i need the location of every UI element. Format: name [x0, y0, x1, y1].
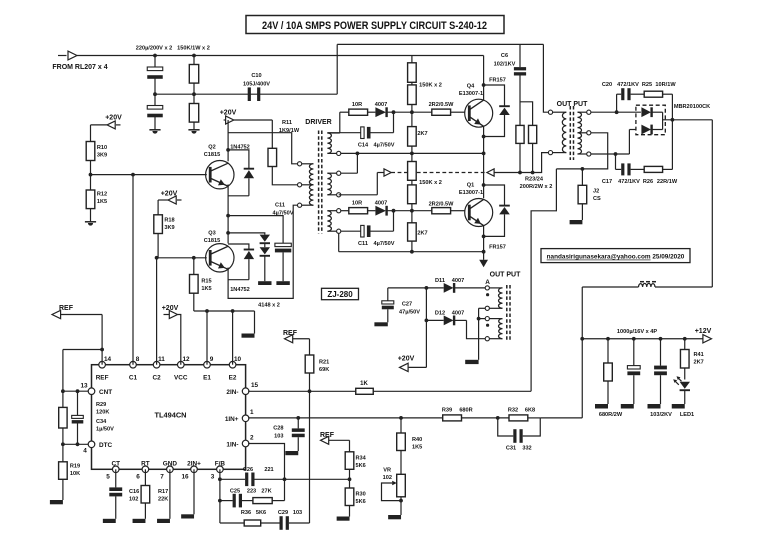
wire +12V rail	[582, 338, 703, 340]
IC pin 16 2IN+	[191, 466, 198, 473]
svg-text:R21: R21	[319, 360, 329, 366]
svg-text:150K/1W x 2: 150K/1W x 2	[177, 46, 210, 52]
svg-text:Q1: Q1	[467, 183, 474, 189]
ground	[595, 404, 608, 409]
svg-text:FR157: FR157	[489, 245, 506, 251]
resistor 150K/1W No.1	[193, 56, 195, 65]
svg-text:4007: 4007	[452, 278, 464, 284]
wire C1 riser	[132, 175, 134, 365]
resistor 680R/2W	[607, 339, 609, 363]
capacitor 103/2KV	[660, 339, 662, 366]
svg-text:4007: 4007	[375, 102, 387, 108]
wire feedback to R32	[581, 339, 583, 418]
resistor R10 3K9	[90, 125, 92, 142]
svg-text:2K7: 2K7	[417, 231, 427, 237]
IC pin 3 F/B	[217, 466, 224, 473]
capacitor 1000u/16V	[633, 339, 635, 366]
wire snubber right riser	[671, 94, 673, 169]
svg-text:3K9: 3K9	[164, 225, 174, 231]
IC pin 11 C2	[153, 361, 160, 368]
wire winding row to bridge node	[341, 152, 484, 154]
svg-text:47µ/50V: 47µ/50V	[399, 310, 420, 316]
wire Q3 emitter return loop	[228, 205, 297, 298]
svg-text:R15: R15	[201, 279, 211, 285]
svg-text:C14: C14	[358, 143, 369, 149]
svg-text:+20V: +20V	[220, 110, 237, 117]
wire R21 down	[309, 373, 311, 523]
wire +12V riser	[581, 287, 583, 339]
capacitor C34 1u/50V	[77, 391, 79, 415]
svg-text:C1: C1	[129, 375, 138, 382]
svg-text:10: 10	[234, 356, 242, 363]
ground	[157, 519, 170, 523]
svg-text:1K: 1K	[360, 381, 368, 387]
IC pin 9 E1	[204, 361, 211, 368]
svg-text:R12: R12	[97, 192, 107, 198]
svg-text:11: 11	[158, 356, 165, 363]
ground	[242, 334, 255, 338]
ground	[621, 404, 634, 409]
svg-text:R10: R10	[97, 145, 107, 151]
resistor 150K/1W No.2	[193, 94, 195, 103]
wire REF branch	[63, 349, 102, 351]
svg-text:27K: 27K	[261, 489, 271, 495]
IC pin 14 REF	[99, 361, 106, 368]
svg-text:472/1KV: 472/1KV	[617, 82, 639, 88]
wire C14 risers	[393, 112, 395, 133]
wire top link	[336, 44, 338, 94]
svg-text:R30: R30	[356, 492, 366, 498]
svg-text:C27: C27	[402, 302, 412, 308]
svg-text:R34: R34	[356, 456, 367, 462]
wire R23/R24 bottoms to drive bus	[519, 143, 521, 172]
wire feedback return loop	[531, 169, 556, 391]
wire link windings	[356, 153, 358, 173]
svg-text:1K5: 1K5	[412, 445, 422, 451]
IC pin 6 RT	[142, 466, 149, 473]
svg-text:6: 6	[136, 474, 140, 481]
main transformer secondary	[578, 112, 582, 133]
wire emitter return rail	[338, 233, 340, 251]
transistor Q2 C1815	[206, 161, 234, 189]
svg-text:OUT PUT: OUT PUT	[557, 101, 588, 108]
ground arrow	[483, 252, 485, 260]
svg-text:VR: VR	[383, 468, 391, 474]
svg-text:5: 5	[106, 474, 110, 481]
IC pin 15 2IN-	[242, 388, 249, 395]
svg-text:J2: J2	[593, 189, 599, 195]
wire 2IN- feedback row	[248, 390, 531, 392]
svg-text:4: 4	[83, 448, 87, 455]
svg-text:F/B: F/B	[215, 461, 226, 468]
svg-text:CS: CS	[593, 196, 601, 202]
svg-text:R25: R25	[642, 82, 652, 88]
svg-text:2K7: 2K7	[417, 131, 427, 137]
diodes 4148 x 2 column	[228, 233, 265, 235]
svg-text:5K6: 5K6	[356, 499, 366, 505]
IC pin 2 1IN-	[242, 440, 249, 447]
IC pin 13 CNT	[88, 388, 95, 395]
svg-text:+20V: +20V	[398, 356, 415, 363]
svg-text:C17: C17	[602, 179, 612, 185]
ground	[570, 220, 583, 224]
wire Q4 collector riser	[483, 56, 485, 101]
wire R24 top link	[520, 102, 533, 126]
svg-text:E13007-1: E13007-1	[459, 190, 483, 196]
resistor 27K	[253, 498, 272, 504]
svg-text:CT: CT	[111, 461, 120, 468]
svg-text:C11: C11	[275, 203, 285, 209]
svg-text:2IN+: 2IN+	[187, 461, 201, 468]
capacitor 220u No.2	[154, 94, 156, 106]
IC pin 1 1IN+	[242, 415, 249, 422]
capacitor 220u No.1	[154, 56, 156, 68]
svg-text:120K: 120K	[96, 410, 109, 416]
svg-text:C1815: C1815	[204, 238, 220, 244]
svg-text:R40: R40	[412, 437, 422, 443]
svg-text:105J/400V: 105J/400V	[243, 82, 270, 88]
svg-text:C25: C25	[230, 489, 240, 495]
resistor R29 120K	[59, 407, 67, 428]
svg-text:C2: C2	[153, 375, 162, 382]
capacitor C29 103	[280, 516, 283, 530]
svg-text:103: 103	[293, 510, 302, 516]
svg-text:+20V: +20V	[105, 115, 122, 122]
svg-text:R29: R29	[96, 402, 106, 408]
svg-text:223: 223	[247, 489, 256, 495]
wire rail ground stub	[254, 311, 256, 334]
driver transformer secondary windings	[327, 133, 331, 153]
wire VR wiper loop	[382, 483, 402, 501]
svg-text:5K6: 5K6	[356, 463, 366, 469]
wire bus to primary bottom	[494, 153, 548, 173]
svg-text:1K5: 1K5	[201, 286, 211, 292]
wire Q4 emitter riser / half-bridge node	[483, 126, 485, 199]
svg-text:7: 7	[160, 474, 164, 481]
svg-text:C1815: C1815	[204, 152, 220, 158]
svg-text:3K9: 3K9	[97, 153, 107, 159]
svg-text:C31: C31	[506, 446, 516, 452]
svg-text:680R: 680R	[459, 408, 472, 414]
diode MBR lower	[641, 125, 651, 135]
svg-text:10R: 10R	[352, 201, 362, 207]
svg-text:6K8: 6K8	[525, 408, 535, 414]
ground	[188, 129, 199, 131]
resistor R24 200R/2W	[529, 125, 537, 143]
svg-text:RT: RT	[141, 461, 150, 468]
svg-text:VCC: VCC	[174, 375, 188, 382]
svg-text:4µ7/50V: 4µ7/50V	[374, 241, 395, 247]
ground	[133, 519, 146, 523]
wire driver sec upper link	[339, 112, 341, 133]
svg-text:1N4752: 1N4752	[230, 287, 250, 293]
svg-text:D12: D12	[435, 310, 445, 316]
svg-text:R36: R36	[241, 510, 251, 516]
svg-text:C34: C34	[96, 419, 107, 425]
wire drive bus dashed	[339, 194, 378, 196]
svg-text:C20: C20	[602, 82, 612, 88]
wire Q2 base row	[91, 174, 207, 176]
ground	[181, 514, 194, 518]
svg-text:E2: E2	[229, 375, 237, 382]
svg-text:2R2/0.5W: 2R2/0.5W	[429, 202, 455, 208]
svg-text:A: A	[485, 279, 490, 286]
svg-text:1IN-: 1IN-	[226, 441, 238, 448]
transistor Q3 C1815	[206, 244, 234, 272]
input arrow FROM RL207 x 4	[58, 55, 67, 57]
svg-text:R23/24: R23/24	[525, 177, 544, 183]
svg-text:680R/2W: 680R/2W	[599, 412, 623, 418]
title box	[246, 16, 504, 34]
wire to capacitor C11a	[228, 216, 283, 244]
svg-text:1000µ/16V x 4P: 1000µ/16V x 4P	[617, 329, 658, 335]
IC pin 5 CT	[112, 466, 119, 473]
resistor R11 1K9/1W	[271, 120, 273, 148]
ground	[672, 404, 685, 409]
svg-text:1: 1	[250, 409, 254, 416]
svg-text:E13007-1: E13007-1	[459, 91, 483, 97]
wire Q1 emitter riser	[483, 225, 485, 252]
svg-text:2R2/0.5W: 2R2/0.5W	[429, 102, 455, 108]
svg-text:69K: 69K	[319, 367, 329, 373]
wire D11/D12 anode riser	[425, 288, 427, 368]
svg-text:R19: R19	[70, 464, 80, 470]
svg-text:1µ/50V: 1µ/50V	[96, 427, 114, 433]
LED1	[680, 382, 690, 389]
svg-text:nandasirigunasekara@yahoo.com: nandasirigunasekara@yahoo.com 25/09/2020	[547, 254, 685, 261]
svg-text:ZJ-280: ZJ-280	[327, 290, 353, 299]
wire zener1 to Q2 emitter	[228, 195, 249, 197]
svg-text:472/1KV: 472/1KV	[618, 179, 640, 185]
IC pin 12 VCC	[178, 361, 185, 368]
svg-text:102: 102	[383, 475, 392, 481]
wire pin14 riser	[101, 315, 103, 365]
IC pin 7 GND	[167, 466, 174, 473]
IC pin 4 DTC	[88, 441, 95, 448]
resistor R12 1K5	[90, 175, 92, 190]
wire zener2 to Q3 emitter	[228, 279, 249, 281]
svg-text:OUT PUT: OUT PUT	[490, 272, 521, 279]
wire R11 to primary center	[272, 167, 297, 185]
IC pin 10 E2	[229, 361, 236, 368]
ground	[465, 360, 478, 364]
svg-text:4µ7/50V: 4µ7/50V	[273, 210, 294, 216]
svg-text:FR157: FR157	[489, 78, 506, 84]
wire 2IN+ pin down	[193, 469, 195, 514]
aux transformer core	[506, 285, 508, 341]
svg-text:GND: GND	[163, 461, 178, 468]
svg-text:103/2KV: 103/2KV	[650, 412, 672, 418]
ground	[149, 129, 160, 131]
resistor R18 3K9	[157, 200, 159, 215]
wire E2 riser	[232, 311, 234, 365]
svg-text:200R/2W x 2: 200R/2W x 2	[520, 184, 553, 190]
svg-text:22R/1W: 22R/1W	[657, 179, 678, 185]
svg-text:C6: C6	[501, 53, 508, 59]
svg-text:221: 221	[264, 467, 273, 473]
svg-text:10R: 10R	[352, 102, 362, 108]
svg-text:150K x 2: 150K x 2	[419, 83, 442, 89]
svg-text:220µ/200V x 2: 220µ/200V x 2	[136, 46, 173, 52]
wire F/B column	[219, 469, 221, 523]
svg-text:R17: R17	[158, 489, 168, 495]
wire DTC link	[63, 443, 89, 445]
main transformer core	[569, 106, 571, 160]
svg-text:FROM RL207 x 4: FROM RL207 x 4	[52, 64, 107, 71]
wire emitter rail E1/E2	[194, 310, 255, 312]
svg-text:8: 8	[136, 356, 140, 363]
svg-text:REF: REF	[59, 305, 74, 312]
wire Q3 base row	[157, 257, 207, 259]
ground	[337, 517, 350, 521]
svg-text:13: 13	[80, 383, 88, 390]
svg-text:C29: C29	[278, 510, 288, 516]
svg-text:R18: R18	[164, 218, 174, 224]
wire MBR cathode bus	[662, 112, 664, 129]
svg-text:3: 3	[211, 474, 215, 481]
wire 1IN+ row	[248, 417, 443, 419]
svg-text:R11: R11	[282, 120, 292, 126]
svg-text:1K5: 1K5	[97, 199, 107, 205]
svg-text:Q3: Q3	[208, 231, 215, 237]
transistor Q4 E13007-1	[465, 99, 493, 127]
svg-text:4µ7/50V: 4µ7/50V	[374, 143, 395, 149]
svg-text:10K: 10K	[70, 471, 80, 477]
svg-text:14: 14	[104, 356, 112, 363]
svg-text:C26: C26	[243, 467, 253, 473]
svg-text:MBR20100CK: MBR20100CK	[674, 104, 710, 110]
svg-text:Q4: Q4	[467, 84, 475, 90]
svg-text:C10: C10	[251, 73, 261, 79]
svg-text:150K x 2: 150K x 2	[419, 180, 442, 186]
wire Q2 emitter to Q3 collector	[227, 184, 229, 243]
svg-text:R41: R41	[694, 352, 704, 358]
ground	[85, 221, 96, 223]
wire to main transformer primary top	[543, 44, 548, 112]
svg-text:22K: 22K	[158, 497, 168, 503]
svg-text:TL494CN: TL494CN	[154, 411, 186, 420]
svg-text:+12V: +12V	[695, 328, 712, 335]
svg-text:REF: REF	[96, 375, 109, 382]
svg-text:LED1: LED1	[680, 412, 694, 418]
driver transformer core	[318, 131, 320, 234]
wire secondary top row	[591, 111, 641, 113]
wire +20V to R11	[234, 119, 272, 121]
wire aux common	[479, 307, 486, 309]
svg-text:102/1KV: 102/1KV	[494, 62, 516, 68]
wire 1IN- link	[248, 444, 284, 501]
svg-text:2K7: 2K7	[694, 360, 704, 366]
wire Q2 collector riser	[227, 120, 229, 161]
svg-text:4148 x 2: 4148 x 2	[258, 303, 280, 309]
svg-text:C28: C28	[273, 426, 283, 432]
wire GND pin down	[169, 469, 171, 519]
IC pin 8 C1	[130, 361, 137, 368]
resistor R15 1K5	[193, 258, 195, 275]
svg-text:Q2: Q2	[208, 145, 215, 151]
svg-text:103: 103	[274, 434, 283, 440]
svg-text:DTC: DTC	[99, 442, 113, 449]
label box nandasirigunasekara	[541, 249, 690, 263]
wire collector to primary top	[228, 133, 297, 164]
svg-text:4007: 4007	[375, 201, 387, 207]
wire CNT link	[63, 390, 89, 392]
svg-text:9: 9	[210, 356, 214, 363]
svg-text:C11: C11	[358, 241, 368, 247]
svg-text:2IN-: 2IN-	[226, 389, 238, 396]
diode MBR upper	[641, 107, 651, 117]
ground	[648, 404, 661, 409]
svg-text:CNT: CNT	[99, 389, 112, 396]
transistor Q1 E13007-1	[465, 199, 493, 227]
ground	[103, 519, 116, 523]
svg-text:R39: R39	[442, 408, 452, 414]
svg-text:332: 332	[522, 446, 531, 452]
ground	[50, 500, 63, 504]
wire C2 riser	[156, 258, 158, 365]
label ZJ-280	[322, 288, 359, 299]
filter inductor	[582, 286, 638, 288]
svg-text:DRIVER: DRIVER	[305, 119, 331, 126]
svg-text:R26: R26	[643, 179, 653, 185]
wire E1 riser	[206, 311, 208, 365]
IC U1 TL494CN body	[92, 365, 246, 470]
svg-text:D11: D11	[435, 278, 445, 284]
svg-text:16: 16	[181, 474, 189, 481]
svg-text:2: 2	[250, 435, 254, 442]
svg-text:24V / 10A SMPS POWER SUPPLY CI: 24V / 10A SMPS POWER SUPPLY CIRCUIT S-24…	[262, 20, 487, 32]
svg-text:5K6: 5K6	[256, 510, 266, 516]
wire DC output	[663, 119, 713, 121]
wire center tap return	[556, 133, 607, 169]
svg-text:1IN+: 1IN+	[225, 416, 239, 423]
ground	[388, 515, 401, 519]
svg-text:10R/1W: 10R/1W	[655, 82, 676, 88]
svg-text:E1: E1	[203, 375, 211, 382]
wire secondary bottom row	[591, 153, 630, 155]
wire main output riser	[711, 120, 713, 287]
svg-text:102: 102	[129, 497, 138, 503]
svg-text:15: 15	[251, 382, 259, 389]
wire mid rail	[155, 93, 337, 95]
aux transformer windings	[485, 286, 489, 290]
resistor R23 200R/2W	[516, 125, 524, 143]
driver transformer primary windings	[298, 162, 302, 166]
svg-text:C16: C16	[129, 489, 139, 495]
svg-text:R32: R32	[508, 408, 518, 414]
wire input rail	[77, 55, 484, 57]
svg-text:12: 12	[182, 356, 190, 363]
